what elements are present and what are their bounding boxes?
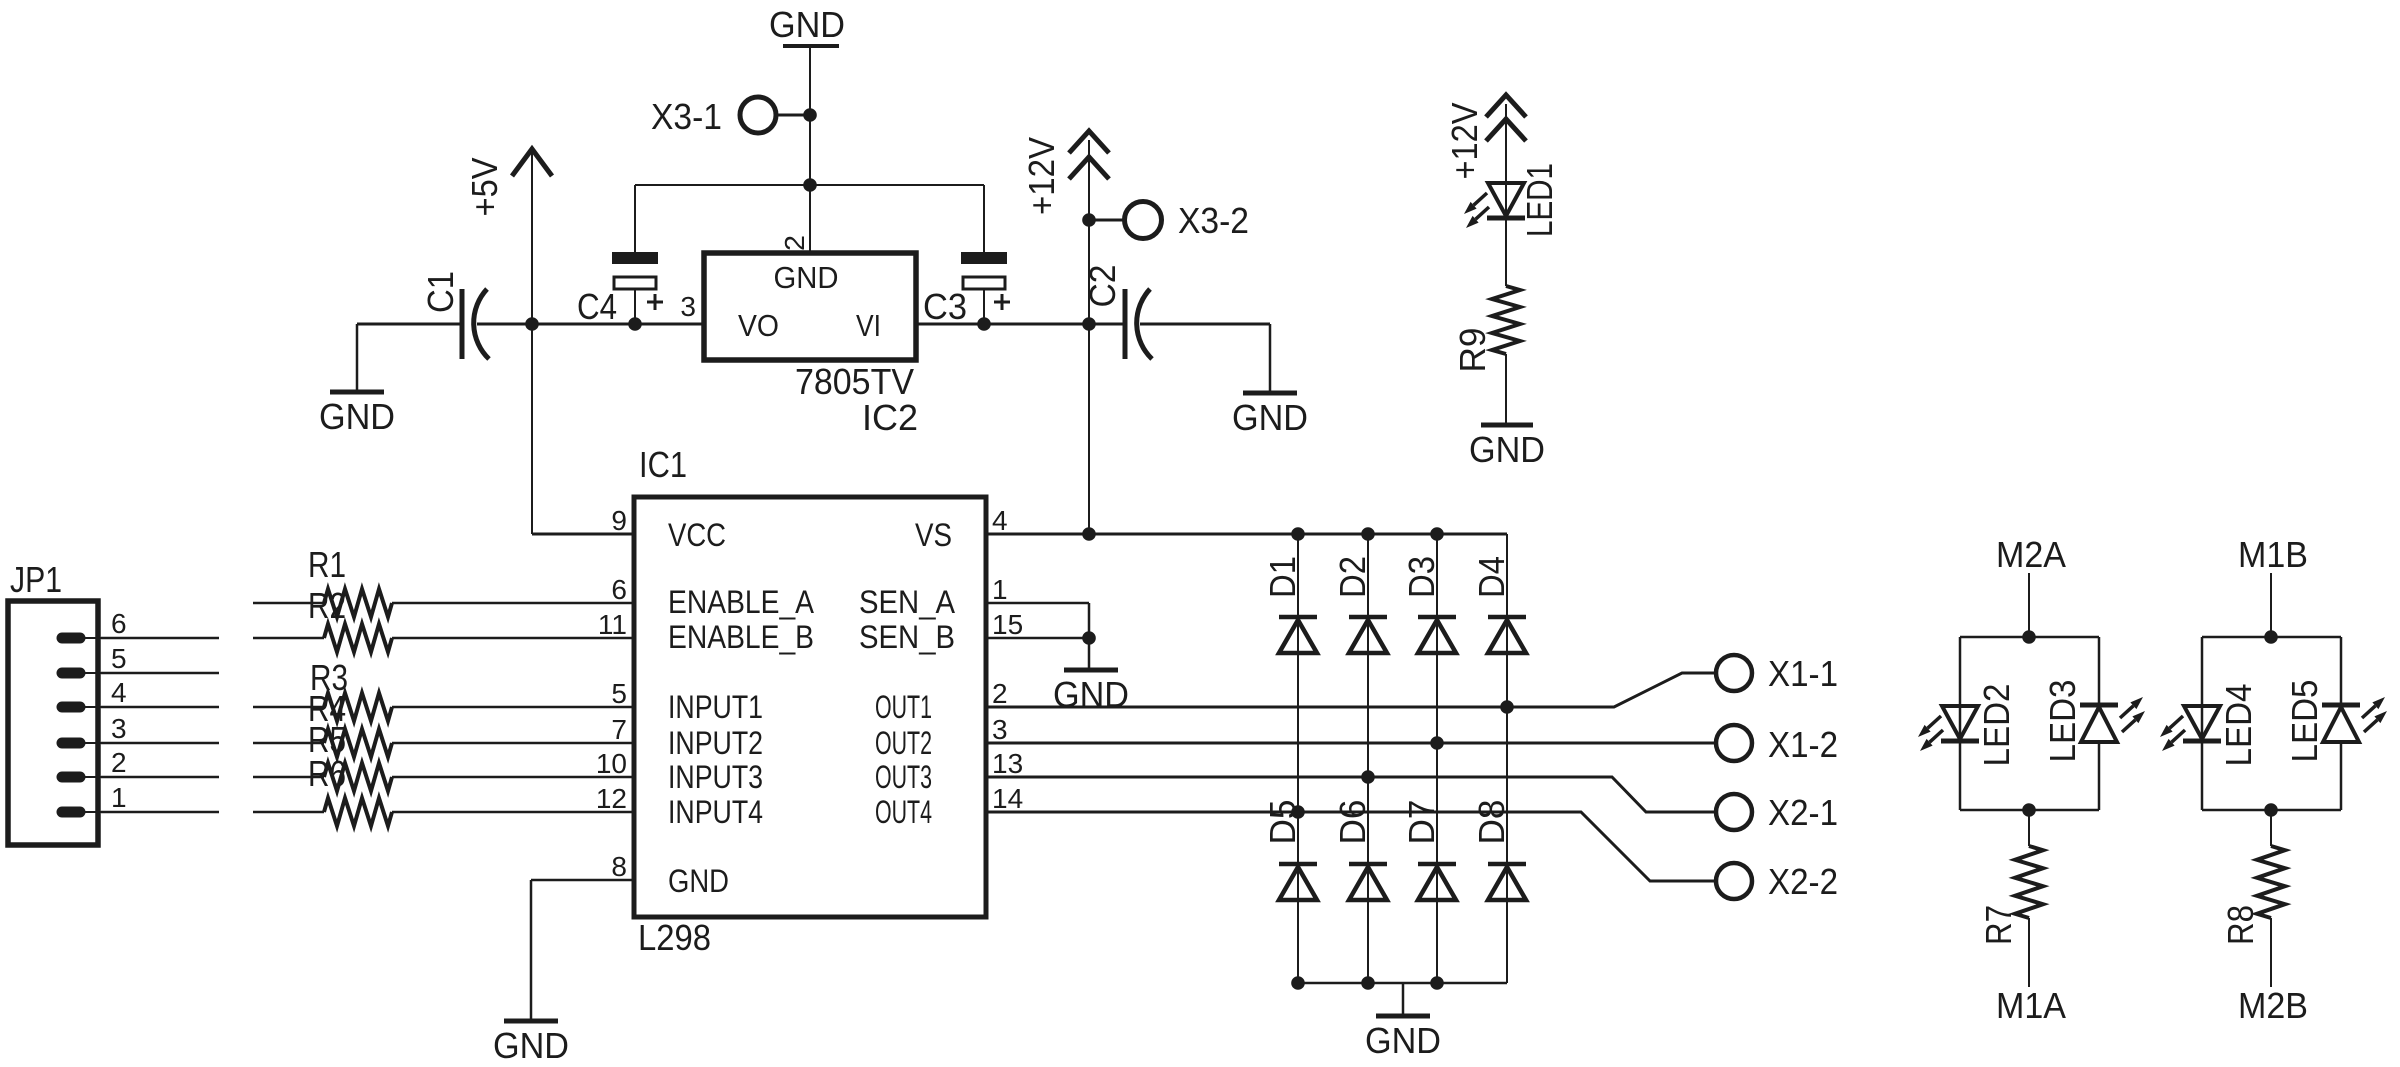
wire R8 to M2B	[2270, 918, 2272, 987]
junction bottom bus D3	[1430, 976, 1444, 990]
junction box top M2A	[2022, 630, 2036, 644]
wire JP1 pin 1	[101, 811, 219, 814]
plus sign C4	[647, 301, 663, 304]
svg-text:X3-2: X3-2	[1178, 200, 1249, 241]
svg-text:R2: R2	[308, 585, 346, 626]
svg-text:X2-1: X2-1	[1768, 792, 1838, 833]
junction C3 lead	[977, 317, 991, 331]
svg-text:12: 12	[596, 783, 627, 814]
connector JP1 pin 4	[62, 702, 101, 713]
resistor (R6 row)	[253, 798, 634, 826]
junction C4 lead	[628, 317, 642, 331]
svg-text:13: 13	[992, 748, 1023, 779]
junction bottom bus D2	[1361, 976, 1375, 990]
svg-text:3: 3	[992, 714, 1008, 745]
svg-text:D6: D6	[1332, 800, 1373, 845]
diode D1	[1279, 617, 1317, 653]
svg-text:LED5: LED5	[2284, 680, 2325, 763]
connector JP1 pin 5	[62, 668, 101, 679]
svg-text:D3: D3	[1401, 556, 1442, 598]
diode D8	[1488, 864, 1526, 900]
svg-text:10: 10	[596, 748, 627, 779]
node M1B	[2238, 534, 2308, 637]
junction +12V rail at C2	[1082, 317, 1096, 331]
LED LED1	[1487, 183, 1525, 218]
svg-text:7805TV: 7805TV	[795, 361, 914, 402]
wire +12V to LED1	[1505, 104, 1507, 220]
svg-text:VS: VS	[915, 517, 952, 553]
svg-text:LED2: LED2	[1976, 684, 2017, 767]
svg-text:C3: C3	[923, 286, 967, 327]
svg-text:C4: C4	[577, 286, 617, 327]
svg-text:C1: C1	[420, 271, 461, 313]
wire LED1 to R9	[1505, 218, 1507, 286]
junction VS bus at D2	[1361, 527, 1375, 541]
svg-text:8: 8	[611, 851, 627, 882]
wire JP1 pin 2	[101, 776, 219, 779]
svg-text:INPUT2: INPUT2	[668, 725, 763, 761]
svg-text:INPUT3: INPUT3	[668, 759, 763, 795]
wire SEN to ground	[1088, 638, 1091, 670]
LED LED4	[2183, 706, 2221, 741]
IC U1 L298 body	[634, 497, 986, 917]
wire indicator box M2A	[1960, 637, 2099, 810]
svg-text:INPUT4: INPUT4	[668, 794, 763, 830]
svg-text:SEN_A: SEN_A	[859, 584, 956, 620]
resistor R9	[1492, 286, 1520, 354]
wire indicator box M1B	[2202, 637, 2341, 810]
wire box to R8	[2270, 810, 2272, 846]
emission arrows LED1	[1464, 193, 1489, 228]
wire R9 to ground	[1505, 354, 1507, 425]
resistor (R4 row)	[253, 729, 634, 757]
svg-text:X3-1: X3-1	[651, 96, 722, 137]
plus sign C3	[994, 301, 1010, 304]
capacitor C3	[961, 185, 1007, 324]
svg-text:R1: R1	[308, 544, 346, 585]
junction SEN_A/SEN_B	[1082, 631, 1096, 645]
junction VS bus at D3	[1430, 527, 1444, 541]
svg-text:OUT3: OUT3	[875, 759, 932, 795]
junction OUT4/D1	[1291, 805, 1305, 819]
wire VS bus to diodes	[986, 533, 1507, 536]
wire JP1 pin 6	[101, 637, 219, 640]
junction VS bus at D1	[1291, 527, 1305, 541]
wire SEN_A	[986, 603, 1089, 638]
connector JP1 pin 3	[62, 738, 101, 749]
svg-text:9: 9	[611, 505, 627, 536]
svg-text:GND: GND	[319, 396, 395, 437]
resistor (R1 row)	[253, 589, 634, 617]
emission arrows LED2	[1918, 716, 1943, 751]
diode D4	[1488, 617, 1526, 653]
junction box bottom M1B	[2264, 803, 2278, 817]
wire OUT3 to X2-1	[986, 777, 1716, 812]
svg-text:M1B: M1B	[2238, 534, 2308, 575]
wire +5V vertical to VCC	[532, 151, 634, 534]
wire box to R7	[2028, 810, 2030, 846]
svg-text:R8: R8	[2220, 905, 2261, 945]
svg-text:R9: R9	[1452, 328, 1493, 373]
svg-text:M1A: M1A	[1996, 985, 2066, 1026]
diode D7	[1418, 864, 1456, 900]
power arrow +12V (LED1)	[1486, 95, 1526, 141]
wire +12V vertical to VS	[1088, 140, 1090, 534]
junction OUT1/D4	[1500, 700, 1514, 714]
svg-text:14: 14	[992, 783, 1023, 814]
svg-text:GND: GND	[493, 1025, 569, 1066]
wire R7 to M1A	[2028, 918, 2030, 987]
svg-text:GND: GND	[774, 260, 839, 295]
ground GND (diodes)	[1365, 1016, 1441, 1061]
svg-text:GND: GND	[668, 863, 729, 899]
wire JP1 pin 3	[101, 742, 219, 745]
wire OUT1 to X1-1	[986, 673, 1716, 707]
svg-text:M2B: M2B	[2238, 985, 2308, 1026]
wire JP1 pin 4	[101, 706, 219, 709]
diode D2	[1349, 617, 1387, 653]
wire diode bottom bus	[1298, 982, 1507, 985]
svg-text:2: 2	[111, 747, 127, 778]
svg-text:2: 2	[992, 678, 1008, 709]
emission arrows LED4	[2160, 716, 2185, 751]
svg-text:L298: L298	[638, 917, 711, 958]
svg-text:2: 2	[779, 235, 810, 251]
wire C2 to ground	[1269, 324, 1272, 393]
svg-text:X2-2: X2-2	[1768, 861, 1838, 902]
LED LED3	[2080, 705, 2118, 742]
svg-text:+5V: +5V	[464, 158, 505, 217]
svg-text:LED3: LED3	[2042, 680, 2083, 763]
wire C1 to ground	[356, 324, 359, 392]
resistor (R3 row)	[253, 693, 634, 721]
wire OUT2 to X1-2	[986, 742, 1716, 745]
svg-text:OUT2: OUT2	[875, 725, 932, 761]
svg-text:GND: GND	[1365, 1020, 1441, 1061]
capacitor C4	[612, 185, 658, 324]
svg-text:GND: GND	[1232, 397, 1308, 438]
svg-text:+12V: +12V	[1444, 103, 1485, 180]
ground GND (right of C2)	[1232, 393, 1308, 438]
connector JP1 pin 2	[62, 772, 101, 783]
terminal X1-2	[1716, 724, 1838, 765]
junction OUT2/D3	[1430, 736, 1444, 750]
node M2A	[1996, 534, 2066, 637]
terminal X3-2	[1089, 200, 1249, 241]
svg-text:1: 1	[111, 782, 127, 813]
connector JP1 pin 1	[62, 807, 101, 818]
resistor (R2 row)	[253, 624, 634, 652]
terminal X2-2	[1716, 861, 1838, 902]
ground GND (left of C1)	[319, 392, 395, 437]
svg-text:JP1: JP1	[10, 559, 62, 600]
emission arrows LED5	[2362, 697, 2387, 732]
svg-text:X1-2: X1-2	[1768, 724, 1838, 765]
wire VO rail y=324 (5V side)	[357, 323, 704, 326]
svg-text:IC1: IC1	[639, 444, 687, 485]
junction box bottom M2A	[2022, 803, 2036, 817]
connector JP1 pin 6	[62, 633, 101, 644]
wire C4-C3 top link	[635, 184, 984, 186]
svg-text:D8: D8	[1471, 800, 1512, 845]
svg-text:D7: D7	[1401, 800, 1442, 845]
svg-text:VI: VI	[856, 308, 881, 343]
svg-text:OUT1: OUT1	[875, 689, 932, 725]
terminal X2-1	[1716, 792, 1838, 833]
emission arrows LED3	[2120, 697, 2145, 732]
svg-text:R6: R6	[308, 753, 346, 794]
wire diode column D4/D8	[1506, 534, 1508, 983]
svg-text:VCC: VCC	[668, 517, 726, 553]
svg-text:X1-1: X1-1	[1768, 653, 1838, 694]
junction C1/+5V rail	[525, 317, 539, 331]
junction box top M1B	[2264, 630, 2278, 644]
svg-text:M2A: M2A	[1996, 534, 2066, 575]
capacitor C2	[1125, 289, 1152, 359]
svg-text:GND: GND	[1469, 429, 1545, 470]
svg-text:LED4: LED4	[2218, 684, 2259, 767]
junction GND net above IC2	[803, 178, 817, 192]
svg-text:VO: VO	[738, 308, 779, 343]
diode D3	[1418, 617, 1456, 653]
junction bottom bus D1	[1291, 976, 1305, 990]
junction VS/+12V	[1082, 527, 1096, 541]
svg-text:15: 15	[992, 609, 1023, 640]
ground GND (LED1)	[1469, 425, 1545, 470]
wire IC1 pin8 GND	[531, 880, 634, 1021]
resistor (R5 row)	[253, 763, 634, 791]
wire SEN_B	[986, 637, 1089, 640]
svg-text:SEN_B: SEN_B	[859, 619, 955, 655]
svg-text:7: 7	[611, 714, 627, 745]
svg-text:R7: R7	[1978, 905, 2019, 945]
svg-text:1: 1	[992, 574, 1008, 605]
wire JP1 pin 5	[101, 672, 219, 675]
connector JP1 body	[8, 601, 98, 845]
wire VI rail y=324 (12V side)	[916, 323, 1270, 326]
svg-text:5: 5	[611, 678, 627, 709]
power arrow +12V (main)	[1069, 131, 1109, 179]
ground GND (IC1 pin8)	[493, 1021, 569, 1066]
resistor R7	[2015, 846, 2043, 918]
svg-text:D4: D4	[1471, 556, 1512, 598]
svg-text:GND: GND	[769, 4, 845, 45]
wire OUT4 to X2-2	[986, 812, 1716, 881]
diode D5	[1279, 864, 1317, 900]
svg-text:LED1: LED1	[1519, 163, 1560, 237]
svg-text:3: 3	[680, 291, 696, 322]
power arrow +5V	[512, 149, 552, 176]
junction X3-2 tap	[1082, 213, 1096, 227]
svg-text:D1: D1	[1262, 556, 1303, 598]
diode D6	[1349, 864, 1387, 900]
svg-text:11: 11	[598, 609, 627, 640]
svg-text:OUT4: OUT4	[875, 794, 932, 830]
svg-text:4: 4	[992, 505, 1008, 536]
svg-text:4: 4	[111, 677, 127, 708]
svg-text:D2: D2	[1332, 556, 1373, 598]
wire diode column D2/D6	[1367, 534, 1369, 983]
svg-text:+12V: +12V	[1021, 137, 1062, 215]
svg-text:GND: GND	[1053, 674, 1129, 715]
voltage regulator IC2 7805	[704, 253, 916, 360]
ground GND top (above X3-1)	[769, 4, 845, 46]
terminal X3-1	[651, 96, 810, 137]
svg-text:6: 6	[111, 608, 127, 639]
svg-text:ENABLE_A: ENABLE_A	[668, 584, 815, 620]
svg-text:IC2: IC2	[862, 397, 918, 438]
svg-text:INPUT1: INPUT1	[668, 689, 763, 725]
svg-text:6: 6	[611, 574, 627, 605]
wire bottom bus to ground	[1402, 983, 1405, 1016]
svg-text:ENABLE_B: ENABLE_B	[668, 619, 814, 655]
junction OUT3/D2	[1361, 770, 1375, 784]
capacitor C1	[462, 289, 489, 359]
svg-text:3: 3	[111, 713, 127, 744]
wire diode column D3/D7	[1436, 534, 1438, 983]
ground GND (SEN)	[1053, 670, 1129, 715]
resistor R8	[2257, 846, 2285, 918]
terminal X1-1	[1716, 653, 1838, 694]
LED LED5	[2322, 705, 2360, 742]
wire diode column D1/D5	[1297, 534, 1299, 983]
svg-text:5: 5	[111, 643, 127, 674]
wire GND-top to 7805 pin2 vertical	[809, 46, 811, 253]
junction at X3-1 wire	[803, 108, 817, 122]
LED LED2	[1941, 706, 1979, 741]
